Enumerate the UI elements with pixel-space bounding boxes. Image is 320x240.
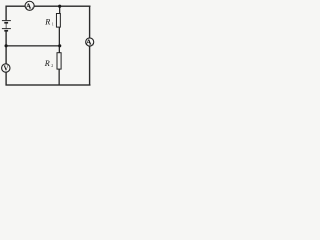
wire middle horizontal (6, 45, 60, 46)
svg-text:R: R (44, 17, 50, 26)
node middle junction (58, 44, 61, 47)
node top junction (58, 5, 61, 8)
voltmeter V (2, 64, 10, 73)
svg-text:2: 2 (51, 64, 53, 68)
node left middle junction (5, 44, 8, 47)
svg-text:V: V (3, 65, 8, 72)
wire middle branch vertical (59, 6, 61, 85)
svg-text:1: 1 (32, 6, 34, 10)
battery B1 (2, 20, 11, 32)
wire right rail (89, 6, 90, 86)
wire left rail (5, 6, 6, 86)
wire top rail (6, 6, 91, 7)
label R2 (44, 59, 54, 68)
svg-text:1: 1 (52, 22, 54, 26)
ammeter A2 (86, 38, 94, 47)
svg-text:R: R (44, 59, 50, 68)
resistor R2 (57, 53, 61, 69)
ammeter A1 (25, 1, 34, 10)
label R1 (44, 17, 54, 26)
wire bottom rail (6, 84, 91, 85)
svg-text:2: 2 (92, 42, 94, 46)
resistor R1 (56, 14, 60, 28)
